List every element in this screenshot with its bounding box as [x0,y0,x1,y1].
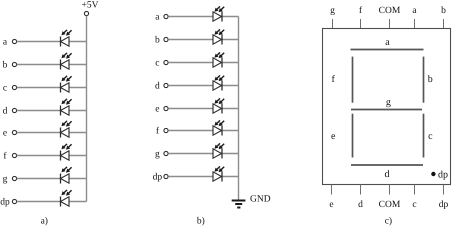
wire g (part b) [168,153,238,155]
LED b (part b) [213,29,224,44]
node f (part b) [156,127,168,137]
wire d (part a) [17,110,87,112]
segment d [351,165,423,180]
node g (part a) [3,175,17,185]
pin a (top) [412,6,417,28]
LED a (part b) [213,6,224,21]
node a (part a) [3,38,17,48]
LED dp (part b) [213,166,224,181]
svg-text:d: d [155,82,160,92]
LED g (part b) [213,143,224,158]
node c (part a) [3,84,17,94]
pin f (top) [359,6,363,28]
segment b [424,57,433,103]
wire c (part b) [168,62,238,64]
node a (part b) [155,13,168,23]
pin d (bottom) [358,185,363,211]
wire b (part b) [168,39,238,41]
net GND label [250,195,271,205]
wire +5V bus (part a) [86,16,88,202]
power +5V label [82,1,99,11]
wire GND bus (part b) [238,17,240,201]
wire d (part b) [168,85,238,87]
svg-text:c: c [412,200,416,210]
node g (part b) [155,150,168,160]
svg-text:c): c) [385,217,392,227]
svg-text:COM: COM [379,200,401,210]
svg-text:b: b [3,61,8,71]
node e (part b) [155,105,168,115]
segment dp [431,169,448,180]
svg-text:dp: dp [438,169,448,180]
LED d (part b) [213,75,224,90]
wire g (part a) [17,178,87,180]
svg-text:d: d [358,200,363,210]
wire dp (part b) [168,176,238,178]
LED b (part a) [61,53,72,70]
LED e (part a) [61,121,72,138]
svg-text:g: g [330,6,335,16]
node d (part b) [155,82,168,92]
svg-text:c: c [428,131,433,142]
svg-text:a: a [385,37,390,48]
node b (part a) [3,61,17,71]
caption b) [197,217,205,227]
LED f (part a) [61,144,72,161]
svg-text:b: b [441,6,446,16]
svg-text:b): b) [197,217,205,227]
LED a (part a) [61,30,72,47]
svg-text:+5V: +5V [82,1,99,11]
node e (part a) [3,129,17,139]
ground symbol [232,201,246,208]
wire a (part a) [17,41,87,43]
LED f (part b) [213,120,224,135]
power +5V terminal [84,11,88,15]
svg-text:dp: dp [0,198,10,208]
svg-text:a): a) [41,217,48,227]
svg-text:COM: COM [379,6,401,16]
svg-text:d: d [3,107,8,117]
segment e [331,114,353,158]
wire e (part b) [168,108,238,110]
pin c (bottom) [412,185,416,211]
node c (part b) [155,59,168,69]
LED dp (part a) [61,190,72,207]
svg-text:dp: dp [153,173,163,183]
wire b (part a) [17,64,87,66]
pin e (bottom) [329,185,333,211]
svg-text:b: b [155,36,160,46]
caption c) [385,217,392,227]
wire a (part b) [168,16,238,18]
svg-text:e: e [331,131,336,142]
svg-text:g: g [3,175,8,185]
svg-text:c: c [3,84,7,94]
svg-text:GND: GND [250,195,271,205]
wire e (part a) [17,132,87,134]
LED c (part a) [61,76,72,93]
wire c (part a) [17,87,87,89]
LED d (part a) [61,99,72,116]
node b (part b) [155,36,168,46]
display package outline [323,29,451,185]
pin g (top) [330,6,335,28]
LED e (part b) [213,98,224,113]
node dp (part b) [153,173,168,183]
wire f (part b) [168,130,238,132]
svg-text:dp: dp [439,200,449,210]
caption a) [41,217,48,227]
segment g [351,97,422,110]
wire dp (part a) [17,201,87,203]
node dp (part a) [0,198,16,208]
wire f (part a) [17,155,87,157]
svg-text:d: d [385,169,390,180]
LED g (part a) [61,167,72,184]
svg-text:c: c [155,59,159,69]
svg-text:e: e [3,129,7,139]
pin COM (bottom) [379,185,401,211]
node d (part a) [3,107,17,117]
svg-text:e: e [155,105,159,115]
pin dp (bottom) [439,185,449,211]
svg-text:b: b [428,74,433,85]
segment a [351,37,424,50]
svg-text:g: g [386,97,391,108]
LED c (part b) [213,52,224,67]
pin b (top) [441,6,446,28]
node f (part a) [3,152,16,162]
svg-text:e: e [329,200,333,210]
svg-text:g: g [155,150,160,160]
segment f [332,57,353,103]
segment c [424,114,434,158]
pin COM (top) [379,6,401,28]
